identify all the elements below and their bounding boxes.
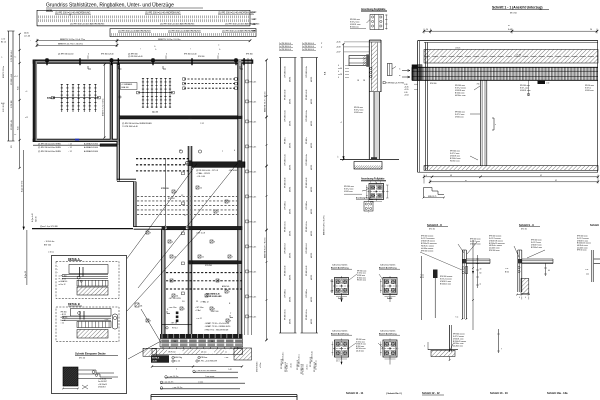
svg-text:M 1:20: M 1:20 — [79, 357, 86, 359]
svg-text:2 IPE 300 l=8.4m: 2 IPE 300 l=8.4m — [306, 65, 308, 78]
svg-text:DETAIL B: DETAIL B — [68, 302, 80, 306]
svg-text:24: 24 — [426, 29, 428, 31]
svg-text:Schnitt 8 - 8: Schnitt 8 - 8 — [427, 223, 442, 227]
svg-text:2 IPE 300 l=8.4m: 2 IPE 300 l=8.4m — [285, 109, 287, 122]
svg-text:(2) xxx: (2) xxx — [201, 352, 206, 354]
svg-text:4 M16 xxxx: 4 M16 xxxx — [354, 112, 363, 114]
svg-text:VERT.: VERT. — [252, 31, 258, 33]
svg-text:IPE 300 x: IPE 300 x — [306, 137, 308, 144]
svg-text:○: ○ — [30, 40, 31, 42]
svg-text:4 M16 8. xxxx: 4 M16 8. xxxx — [356, 344, 366, 346]
svg-text:2xM16: 2xM16 — [338, 298, 343, 300]
svg-text:Bauteil Ausführung: Bauteil Ausführung — [379, 332, 397, 335]
svg-text:IPE 300 x: IPE 300 x — [285, 137, 287, 144]
svg-text:IPE 300: IPE 300 — [61, 311, 67, 313]
svg-text:xx: xx — [465, 180, 467, 182]
svg-text:□ SPANT. TR 16 × 4.5×0.6×0.30: □ SPANT. TR 16 × 4.5×0.6×0.30 — [204, 322, 229, 325]
svg-text:BREITE 7.7m / 8.07m: BREITE 7.7m / 8.07m — [102, 98, 104, 116]
svg-text:40: 40 — [480, 269, 482, 271]
svg-text:xx: xx — [225, 352, 227, 354]
svg-text:Bl 200 xxxx: Bl 200 xxxx — [350, 26, 359, 28]
svg-text:5: 5 — [375, 182, 376, 184]
svg-text:Bauteil Ausführung: Bauteil Ausführung — [331, 266, 349, 269]
svg-text:xx: xx — [480, 284, 482, 286]
svg-text:□ 12: □ 12 — [200, 122, 204, 125]
svg-text:2 IPE 300 l=8.4: 2 IPE 300 l=8.4 — [11, 50, 13, 62]
svg-text:IPE 300 l=8.4m: IPE 300 l=8.4m — [306, 309, 308, 320]
svg-text:○ 12: ○ 12 — [68, 151, 72, 153]
svg-text:○ Bl 15: ○ Bl 15 — [61, 278, 66, 280]
svg-text:○ FBW. TR 4 □ KELLER BODE: ○ FBW. TR 4 □ KELLER BODE — [204, 328, 229, 331]
svg-text:x 12: x 12 — [25, 117, 28, 119]
svg-text:STG 30: STG 30 — [161, 188, 169, 190]
svg-text:Schnitt 11 - 11: Schnitt 11 - 11 — [346, 391, 364, 395]
svg-text:IPE 300: IPE 300 — [430, 83, 436, 85]
svg-text:STB.WD: STB.WD — [205, 265, 213, 267]
svg-text:St 37 xx: St 37 xx — [585, 87, 591, 90]
svg-text:NNN 13.75: NNN 13.75 — [428, 196, 436, 198]
svg-text:IPE 300 l=6.40: IPE 300 l=6.40 — [285, 266, 287, 276]
svg-text:IPE 300 l=6.40: IPE 300 l=6.40 — [184, 54, 196, 56]
svg-text:5: 5 — [166, 54, 167, 56]
svg-text:4: 4 — [426, 175, 427, 177]
svg-text:4: 4 — [172, 241, 173, 243]
svg-text:7: 7 — [220, 280, 221, 282]
svg-text:2 IPE 300 l=6.4m: 2 IPE 300 l=6.4m — [306, 153, 308, 166]
svg-text:x 2.4: x 2.4 — [14, 76, 18, 78]
svg-text:○ P.BAL 12: ○ P.BAL 12 — [200, 301, 209, 304]
svg-text:IPE 300 l=6.4m x: IPE 300 l=6.4m x — [283, 352, 285, 364]
svg-text:BREITE 3.07m / 8.07m: BREITE 3.07m / 8.07m — [158, 39, 181, 41]
svg-text:IPE 300 l=6.4m: IPE 300 l=6.4m — [285, 221, 287, 232]
svg-text:○ xxx 1.4,7m: ○ xxx 1.4,7m — [163, 381, 174, 383]
svg-text:(2) IPE 330 l=6.40: (2) IPE 330 l=6.40 — [58, 54, 73, 56]
svg-text:(2) IPE 330 l=6.40m VERB.: (2) IPE 330 l=6.40m VERB. — [38, 151, 62, 153]
svg-text:BREITE 8.07m / 8.07m: BREITE 8.07m / 8.07m — [324, 215, 326, 235]
svg-text:10: 10 — [174, 256, 176, 258]
svg-text:St 37-2 xxxx: St 37-2 xxxx — [450, 152, 459, 155]
svg-text:○ WT 4.4m: ○ WT 4.4m — [195, 307, 204, 309]
svg-text:6: 6 — [176, 191, 177, 193]
svg-text:BREITE 30.7m / 25.6m: BREITE 30.7m / 25.6m — [265, 91, 267, 112]
svg-text:WT 4.4m: WT 4.4m — [249, 272, 256, 274]
svg-text:7: 7 — [229, 291, 230, 293]
svg-text:○ 10 St 4.4: ○ 10 St 4.4 — [98, 378, 106, 381]
svg-text:5: 5 — [424, 345, 425, 347]
svg-text:□ B 25: □ B 25 — [455, 47, 460, 50]
svg-text:BST 500: BST 500 — [44, 245, 51, 247]
svg-text:24.05: 24.05 — [24, 33, 29, 35]
svg-text:IPE 300: IPE 300 — [198, 56, 204, 58]
svg-text:18: 18 — [357, 80, 359, 82]
svg-text:OK Fund: OK Fund — [168, 352, 175, 354]
svg-text:○ 10 St 4.4m: ○ 10 St 4.4m — [44, 240, 55, 243]
svg-text:□ BST 500: □ BST 500 — [210, 310, 218, 313]
svg-text:□ xxx 4.4m: □ xxx 4.4m — [168, 306, 177, 309]
svg-text:○ xxx 1.4,7m: ○ xxx 1.4,7m — [168, 376, 179, 378]
svg-text:B.Qm 30: B.Qm 30 — [25, 271, 27, 278]
svg-text:□ OK +5.64: □ OK +5.64 — [196, 175, 205, 178]
svg-text:2 IPE 300 xxx: 2 IPE 300 xxx — [316, 360, 318, 370]
svg-text:6: 6 — [338, 71, 339, 73]
svg-text:2 IPE 300 l=8.4: 2 IPE 300 l=8.4 — [306, 243, 308, 254]
svg-text:Bl 20: Bl 20 — [505, 271, 509, 273]
svg-text:SOHLE: SOHLE — [152, 358, 160, 360]
svg-text:BREITE 8.07m: BREITE 8.07m — [257, 361, 259, 372]
svg-text:42: 42 — [555, 180, 557, 182]
svg-text:HEA 160: HEA 160 — [61, 280, 68, 283]
svg-text:Dm 12: Dm 12 — [61, 320, 66, 322]
svg-text:24: 24 — [590, 29, 592, 31]
svg-text:○ P.BAL □ STB 25: ○ P.BAL □ STB 25 — [196, 172, 210, 175]
svg-text:8.44: 8.44 — [508, 29, 512, 31]
svg-text:IPE 300: IPE 300 — [246, 54, 253, 56]
svg-text:WT 4.4m: WT 4.4m — [249, 222, 256, 224]
svg-text:Bl 200x xxxx: Bl 200x xxxx — [357, 277, 366, 279]
svg-text:St 37-2 xxxxxx: St 37-2 xxxxxx — [455, 87, 466, 90]
svg-text:4 M16 xxxx: 4 M16 xxxx — [344, 191, 353, 193]
svg-text:60: 60 — [480, 273, 482, 275]
svg-text:(2) IPE 330 l=6.40m VERBORGEN: (2) IPE 330 l=6.40m VERBORGEN — [122, 123, 152, 125]
svg-text:○ P.Bal: ○ P.Bal — [195, 310, 201, 312]
svg-text:IPE 300 l=6.40: IPE 300 l=6.40 — [306, 266, 308, 276]
svg-text:716: 716 — [477, 83, 480, 85]
svg-text:L 40: L 40 — [546, 83, 549, 85]
svg-text:(2) IPE 300 l=8.40m ANORDNUNG: (2) IPE 300 l=8.40m ANORDNUNG — [160, 22, 195, 25]
svg-text:12: 12 — [200, 187, 202, 189]
svg-text:2 IPE 300: 2 IPE 300 — [11, 101, 13, 108]
svg-text:48: 48 — [450, 175, 452, 177]
svg-text:xx 1.40: xx 1.40 — [24, 36, 30, 38]
svg-text:2 IPE 300 xx: 2 IPE 300 xx — [306, 201, 308, 210]
svg-text:6.00: 6.00 — [18, 87, 20, 91]
svg-text:A.DIBALN 30/60: A.DIBALN 30/60 — [84, 150, 98, 153]
svg-text:Bl 15: Bl 15 — [420, 277, 424, 279]
svg-text:IPE 300 l=6.4m: IPE 300 l=6.4m — [312, 350, 314, 362]
svg-text:2 IPE 300 l=6.4m: 2 IPE 300 l=6.4m — [285, 153, 287, 166]
svg-text:Dm 12: Dm 12 — [61, 284, 66, 286]
svg-text:2 IPE 300 xx: 2 IPE 300 xx — [287, 363, 289, 372]
svg-text:○ xxx 1.4,7m: ○ xxx 1.4,7m — [172, 387, 183, 389]
svg-text:4: 4 — [380, 182, 381, 184]
svg-text:2 IPE 300 l=8.4: 2 IPE 300 l=8.4 — [303, 364, 305, 375]
svg-text:Anordnung Kopfplatte: Anordnung Kopfplatte — [361, 8, 386, 11]
svg-text:Bl 200x1 xxxx: Bl 200x1 xxxx — [531, 247, 542, 249]
svg-text:B.Qm 4.40: B.Qm 4.40 — [32, 213, 34, 222]
svg-text:(2) IPE 330 l=6.40m VERB.: (2) IPE 330 l=6.40m VERB. — [38, 144, 62, 146]
svg-text:VERT.: VERT. — [252, 24, 258, 26]
svg-text:4 M16 8.8: 4 M16 8.8 — [98, 386, 106, 388]
svg-text:7: 7 — [218, 211, 219, 213]
svg-text:9: 9 — [150, 320, 151, 322]
svg-text:IPE 300 xxxx: IPE 300 xxxx — [357, 270, 367, 272]
svg-text:8: 8 — [230, 320, 231, 322]
svg-text:2 IPE 300 xx: 2 IPE 300 xx — [285, 201, 287, 210]
svg-text:9: 9 — [150, 232, 151, 234]
svg-text:WT 4.4: WT 4.4 — [172, 328, 177, 330]
svg-text:Schnitt 9 - 9: Schnitt 9 - 9 — [519, 223, 534, 227]
svg-text:¶ IPE300 l=3.78 TRG: ¶ IPE300 l=3.78 TRG — [386, 83, 404, 85]
svg-text:DETAIL A: DETAIL A — [68, 257, 80, 261]
svg-text:○: ○ — [57, 266, 58, 268]
svg-text:○ 12: ○ 12 — [68, 147, 72, 149]
svg-text:□ WT 4.4.8: □ WT 4.4.8 — [196, 232, 205, 235]
svg-text:□ WT 4.4.8 STB: □ WT 4.4.8 STB — [168, 297, 181, 300]
svg-text:Bl 200 xxxx: Bl 200 xxxx — [356, 346, 364, 348]
svg-text:○ xxx: ○ xxx — [224, 357, 228, 359]
svg-text:WD 30: WD 30 — [35, 217, 37, 223]
svg-text:○ Bl 15: ○ Bl 15 — [61, 314, 66, 316]
svg-text:□ xxx xxxxx: □ xxx xxxxx — [205, 375, 214, 378]
svg-text:4 M16 xxxx: 4 M16 xxxx — [455, 117, 464, 119]
svg-text:□ 5 IPE 300 l=6.40: □ 5 IPE 300 l=6.40 — [122, 125, 138, 128]
svg-text:BST 5-8: BST 5-8 — [168, 198, 175, 200]
svg-text:WT 4.4m: WT 4.4m — [249, 317, 256, 319]
svg-text:B.Qm 30 STG: B.Qm 30 STG — [22, 180, 24, 192]
svg-text:7: 7 — [222, 151, 223, 153]
svg-text:HEA 160: HEA 160 — [61, 316, 68, 319]
svg-text:6: 6 — [338, 65, 339, 67]
svg-text:WT 4.4m: WT 4.4m — [249, 172, 256, 174]
svg-text:+5.87: +5.87 — [336, 52, 341, 54]
svg-text:IPE 300 l=8.40: IPE 300 l=8.40 — [306, 178, 308, 188]
svg-text:(2)xxx 1.4,xx STG WD: (2)xxx 1.4,xx STG WD — [40, 226, 59, 228]
svg-text:IPE 300 xxxx: IPE 300 xxxx — [489, 250, 500, 252]
svg-text:( Schnitt Rie 2 ): ( Schnitt Rie 2 ) — [386, 392, 402, 395]
svg-text:2 IPE 300 xx: 2 IPE 300 xx — [306, 289, 308, 298]
svg-text:○ 6: ○ 6 — [25, 91, 27, 93]
svg-text:A.DIBALN 30/60: A.DIBALN 30/60 — [84, 143, 98, 146]
svg-text:40: 40 — [548, 270, 550, 272]
svg-text:○ 10: ○ 10 — [61, 323, 64, 325]
svg-text:x 25.6m: x 25.6m — [260, 362, 262, 368]
svg-text:IPE 300 l=8.40: IPE 300 l=8.40 — [285, 178, 287, 188]
svg-text:IPE 30 xxxx: IPE 30 xxxx — [577, 250, 587, 252]
svg-text:Anordnung Fußplatte: Anordnung Fußplatte — [361, 177, 385, 180]
svg-text:A.DIBALN 30/60: A.DIBALN 30/60 — [84, 146, 98, 149]
svg-text:□ x: □ x — [14, 134, 16, 136]
svg-text:WT 4.4m: WT 4.4m — [249, 197, 256, 199]
svg-text:8: 8 — [174, 280, 175, 282]
svg-text:St 37- xxxx: St 37- xxxx — [520, 87, 529, 90]
svg-text:▲: ▲ — [154, 45, 156, 48]
svg-text:□ xx: □ xx — [455, 316, 458, 319]
svg-text:+6.08: +6.08 — [336, 47, 341, 49]
svg-text:Schnitt 13a - 13a: Schnitt 13a - 13a — [547, 391, 568, 395]
svg-text:(2) IPE 300 l=8.40m ANORDNUNG: (2) IPE 300 l=8.40m ANORDNUNG — [70, 22, 105, 25]
svg-text:xx 40: xx 40 — [338, 68, 342, 70]
svg-text:□ xx: □ xx — [585, 268, 588, 271]
svg-text:IPE 300 l=6.4m xx: IPE 300 l=6.4m xx — [299, 354, 301, 367]
svg-text:○ xxx xx xx x xxx xxxxxxx: ○ xxx xx xx x xxx xxxxxxx — [196, 370, 216, 372]
svg-text:□ 10 xx: □ 10 xx — [48, 251, 54, 254]
svg-text:5: 5 — [88, 54, 89, 56]
svg-text:IPE 300 xxxx: IPE 300 xxxx — [356, 339, 366, 341]
svg-text:□ xxxx: □ xxxx — [198, 380, 203, 383]
svg-text:WT 4.4m: WT 4.4m — [249, 82, 256, 84]
svg-text:ANSCHL.: ANSCHL. — [222, 285, 230, 288]
svg-text:VERT.: VERT. — [252, 12, 258, 14]
svg-text:+6.45: +6.45 — [336, 42, 341, 44]
svg-text:7: 7 — [501, 348, 502, 350]
svg-text:8: 8 — [214, 241, 215, 243]
svg-text:○ B25: ○ B25 — [104, 319, 109, 321]
svg-text:WT 4.4m: WT 4.4m — [249, 297, 256, 299]
svg-text:42: 42 — [540, 175, 542, 177]
svg-text:WT 4.4m: WT 4.4m — [249, 147, 256, 149]
svg-text:+7.36: +7.36 — [516, 54, 522, 56]
svg-text:WT 4.4m: WT 4.4m — [249, 122, 256, 124]
svg-text:2 IPE 300 xx: 2 IPE 300 xx — [285, 289, 287, 298]
svg-text:l=6.40 xxxx: l=6.40 xxxx — [356, 351, 364, 353]
svg-text:5: 5 — [229, 201, 230, 203]
svg-text:□ 42: □ 42 — [228, 368, 232, 371]
svg-text:wto 11: wto 11 — [152, 111, 159, 114]
svg-text:□ SPANT. TR 16 ○ FUNDB. 80/30: □ SPANT. TR 16 ○ FUNDB. 80/30 — [204, 325, 230, 328]
svg-text:IPE 300 l=6.40: IPE 300 l=6.40 — [285, 90, 287, 100]
svg-text:IPE 300: IPE 300 — [61, 276, 67, 278]
svg-text:□ xx: □ xx — [505, 267, 508, 270]
svg-text:6.00: 6.00 — [1, 103, 5, 105]
svg-text:VERT.: VERT. — [252, 19, 258, 21]
svg-text:○: ○ — [57, 272, 58, 274]
svg-text:HEA 160: HEA 160 — [122, 86, 129, 89]
svg-text:xx: xx — [508, 25, 510, 27]
svg-text:IPE 300 xxxxxx: IPE 300 xxxxxx — [421, 250, 433, 252]
svg-text:6: 6 — [338, 77, 339, 79]
svg-text:Schnitt Einspann Decke: Schnitt Einspann Decke — [75, 352, 106, 356]
svg-text:IPE 300 l=8.40: IPE 300 l=8.40 — [101, 54, 113, 56]
svg-text:2 IPE 300 l=8.4m: 2 IPE 300 l=8.4m — [285, 65, 287, 78]
svg-text:4: 4 — [519, 297, 520, 299]
svg-text:IPE 300 l=6.40: IPE 300 l=6.40 — [11, 74, 13, 85]
svg-text:4 M16 xxxx: 4 M16 xxxx — [357, 275, 365, 277]
svg-text:6.00: 6.00 — [18, 127, 20, 131]
svg-text:Bk 1.4: Bk 1.4 — [1, 42, 6, 44]
svg-text:4: 4 — [370, 182, 371, 184]
svg-text:2xM16: 2xM16 — [387, 298, 392, 300]
svg-text:BREITE 8.07m / 8.07m: BREITE 8.07m / 8.07m — [265, 237, 267, 258]
svg-text:l=6.40m xxxx: l=6.40m xxxx — [453, 346, 463, 348]
svg-text:HV-Schr xxxx: HV-Schr xxxx — [356, 348, 366, 350]
svg-text:(2) IPE 300 l=5.40 □ WT 4.8: (2) IPE 300 l=5.40 □ WT 4.8 — [196, 169, 218, 172]
svg-text:STB-WAND 4.40: STB-WAND 4.40 — [206, 292, 220, 295]
svg-text:(2) IPE 330 l=6.40m VERB.: (2) IPE 330 l=6.40m VERB. — [38, 147, 62, 149]
svg-text:28: 28 — [363, 80, 365, 82]
svg-text:IPE 300 l=8.4: IPE 300 l=8.4 — [11, 120, 13, 130]
svg-text:x 4.4m: x 4.4m — [291, 363, 293, 368]
svg-text:○ OK. FB. +-0.00 KELLER: ○ OK. FB. +-0.00 KELLER — [196, 361, 218, 363]
svg-text:x 4.4m x: x 4.4m x — [307, 364, 309, 370]
svg-text:-0.30: -0.30 — [152, 361, 158, 363]
svg-text:(2) IPE 300 l=6.40: (2) IPE 300 l=6.40 — [128, 56, 143, 58]
svg-text:11: 11 — [202, 256, 204, 258]
svg-text:Bauteil Ausführung: Bauteil Ausführung — [379, 266, 397, 269]
svg-text:WT 4.4m: WT 4.4m — [249, 247, 256, 249]
svg-text:□ 2.0: □ 2.0 — [1, 38, 5, 41]
svg-text:□ RB 30/60: □ RB 30/60 — [228, 169, 237, 172]
svg-text:□ x: □ x — [14, 57, 16, 59]
svg-text:+5.64: +5.64 — [404, 94, 409, 96]
svg-text:5: 5 — [184, 308, 185, 310]
svg-text:HV-Sch xxxx: HV-Sch xxxx — [357, 280, 366, 282]
svg-text:BREITE 3.07m / 8+0.77m: BREITE 3.07m / 8+0.77m — [60, 39, 85, 41]
svg-text:Grundriss Stahlstützen, Ringba: Grundriss Stahlstützen, Ringbalken, Unte… — [46, 2, 174, 9]
svg-text:Schnitt: Schnitt — [590, 223, 599, 227]
svg-text:□ xxx: □ xxx — [420, 273, 424, 276]
svg-text:Bl 200x1 xxxx: Bl 200x1 xxxx — [440, 283, 451, 285]
svg-text:5: 5 — [218, 54, 219, 56]
svg-text:○ 12: ○ 12 — [68, 144, 72, 146]
svg-text:5: 5 — [176, 369, 177, 371]
svg-text:BREITE 25.6m: BREITE 25.6m — [3, 66, 5, 78]
svg-text:xx 28: xx 28 — [338, 74, 342, 76]
svg-text:M 1:10: M 1:10 — [429, 228, 435, 230]
svg-text:4. VERBAND: 4. VERBAND — [122, 83, 133, 86]
svg-text:4 5 4: 4 5 4 — [336, 360, 340, 362]
svg-text:St 37-2 xxxx: St 37-2 xxxx — [455, 113, 464, 116]
svg-text:○: ○ — [57, 269, 58, 271]
svg-text:Schnitt 1 - 1 (Ansicht Unterz: Schnitt 1 - 1 (Ansicht Unterzug) — [492, 5, 542, 9]
svg-text:IPE 300 l=6.40: IPE 300 l=6.40 — [306, 90, 308, 100]
svg-text:M 1:10: M 1:10 — [521, 228, 527, 230]
svg-text:M 1:50: M 1:50 — [510, 12, 517, 14]
svg-text:OK +2.30 KELLER: OK +2.30 KELLER — [206, 296, 222, 298]
svg-text:4 M16 xxxx: 4 M16 xxxx — [585, 90, 594, 92]
svg-text:4: 4 — [525, 297, 526, 299]
svg-text:HV-Schr. xxxx: HV-Schr. xxxx — [455, 94, 466, 97]
svg-text:IPE 300 l=8.4m: IPE 300 l=8.4m — [285, 309, 287, 320]
svg-text:2 IPE 300 l=8.4: 2 IPE 300 l=8.4 — [285, 243, 287, 254]
svg-text:WT 4.4m: WT 4.4m — [249, 102, 256, 104]
svg-text:HV-Sch xxxx: HV-Sch xxxx — [450, 161, 460, 163]
svg-text:Schnitt 12 - 12: Schnitt 12 - 12 — [422, 391, 440, 395]
svg-text:○ xx 12: ○ xx 12 — [196, 318, 202, 320]
svg-text:7: 7 — [232, 256, 233, 258]
svg-text:St 37-2 xxxx: St 37-2 xxxx — [344, 188, 353, 191]
svg-text:4 M16 8. xxxx: 4 M16 8. xxxx — [520, 90, 531, 92]
svg-text:2 IPE 300 l=8.4m: 2 IPE 300 l=8.4m — [306, 109, 308, 122]
svg-text:IPE 300 l=6.4m: IPE 300 l=6.4m — [306, 221, 308, 232]
svg-text:BREITE 42.77m / 25.67m: BREITE 42.77m / 25.67m — [58, 44, 83, 46]
svg-text:Schnitt 13 - 13: Schnitt 13 - 13 — [490, 391, 508, 395]
svg-text:Bauteil Ausführung: Bauteil Ausführung — [331, 332, 349, 335]
